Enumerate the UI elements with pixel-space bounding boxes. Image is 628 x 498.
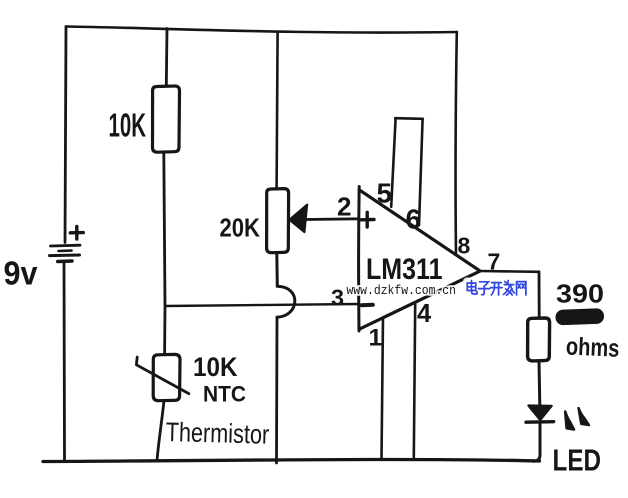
svg-text:3: 3 [331, 285, 344, 311]
svg-text:10K: 10K [193, 352, 238, 382]
svg-text:8: 8 [458, 233, 471, 259]
svg-text:4: 4 [417, 300, 432, 328]
svg-text:1: 1 [369, 325, 383, 352]
svg-text:20K: 20K [220, 212, 261, 242]
svg-text:www.dzkfw.com.cn: www.dzkfw.com.cn [347, 284, 457, 298]
svg-text:390: 390 [556, 281, 604, 309]
svg-text:6: 6 [406, 204, 422, 235]
svg-text:2: 2 [337, 192, 351, 222]
svg-text:LM311: LM311 [366, 253, 443, 286]
svg-text:7: 7 [488, 249, 501, 275]
svg-text:9v: 9v [4, 255, 39, 292]
svg-text:ohms: ohms [565, 333, 620, 363]
svg-text:Thermistor: Thermistor [165, 417, 269, 450]
svg-text:5: 5 [377, 178, 393, 209]
svg-text:LED: LED [553, 443, 602, 478]
svg-text:10K: 10K [109, 107, 147, 144]
svg-text:NTC: NTC [203, 382, 246, 407]
